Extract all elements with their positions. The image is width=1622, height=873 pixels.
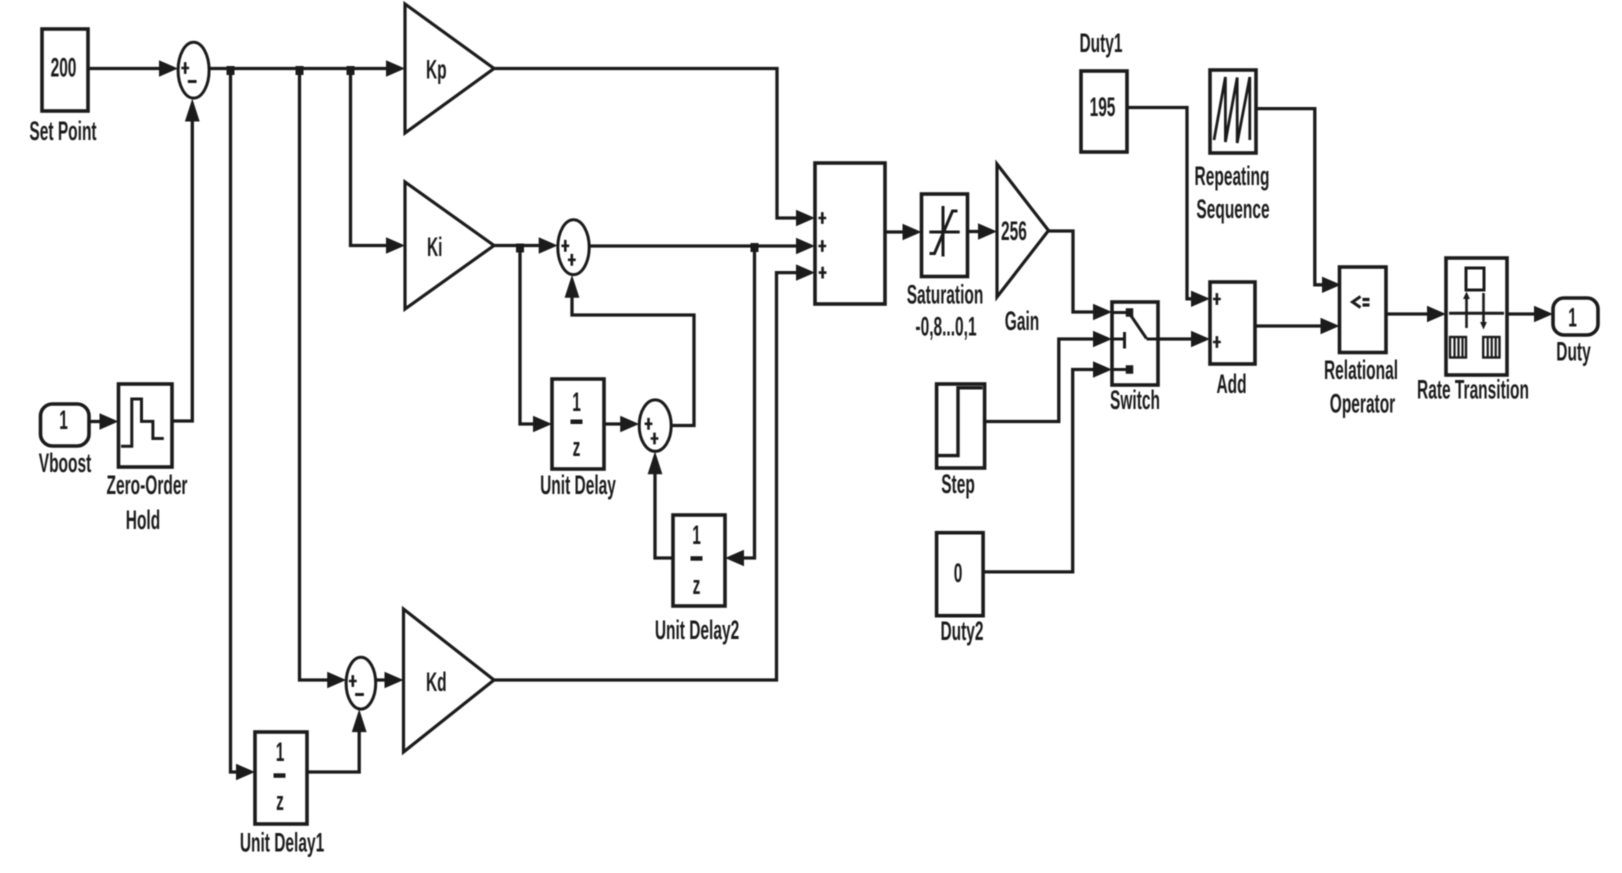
svg-text:1: 1 xyxy=(572,386,581,417)
svg-text:Duty1: Duty1 xyxy=(1079,27,1122,58)
wire Duty2 up to Switch input 3 xyxy=(983,361,1112,572)
svg-text:Ki: Ki xyxy=(427,231,443,262)
gain block Kd xyxy=(404,609,495,752)
Repeating Sequence block (sawtooth) xyxy=(1195,70,1270,224)
wire S2-line branch down to Unit Delay2 right input xyxy=(725,246,755,566)
wire Kd to big Sum third input xyxy=(494,264,815,680)
Zero-Order Hold block xyxy=(107,384,188,535)
svg-text:Unit Delay2: Unit Delay2 xyxy=(655,614,739,645)
Add block (+/+) xyxy=(1210,282,1255,399)
svg-text:Kp: Kp xyxy=(426,54,447,85)
wire error branch to Ki xyxy=(351,69,406,254)
wire Switch to Add second input xyxy=(1158,331,1210,347)
gain block Kp xyxy=(405,4,494,133)
Unit Delay1 block (1/z) xyxy=(240,732,324,858)
wire Add to Relational Operator input 2 xyxy=(1255,318,1340,334)
gain block Ki xyxy=(405,182,494,309)
wire S2 to big Sum middle input xyxy=(589,238,815,254)
svg-text:256: 256 xyxy=(1001,215,1027,246)
wire Gain 256 down to Switch input 1 xyxy=(1049,231,1113,320)
sum junction S1 (+/-) after Set Point xyxy=(178,42,209,98)
svg-text:1: 1 xyxy=(276,736,285,767)
wire Step up to Switch input 2 xyxy=(985,331,1112,422)
svg-text:-0,8...0,1: -0,8...0,1 xyxy=(915,311,976,342)
svg-text:Hold: Hold xyxy=(126,504,160,535)
svg-text:z: z xyxy=(693,569,701,600)
Switch block xyxy=(1110,302,1160,415)
svg-text:195: 195 xyxy=(1090,91,1116,122)
svg-text:Rate Transition: Rate Transition xyxy=(1417,374,1529,405)
svg-text:Relational: Relational xyxy=(1324,354,1398,385)
wire Ki to S2 xyxy=(494,237,558,253)
wire Zero-Order Hold up to S1 minus input xyxy=(172,99,200,422)
wire Unit Delay to S3 xyxy=(604,416,639,432)
svg-text:z: z xyxy=(573,431,581,462)
inport Vboost (1) xyxy=(39,404,92,478)
constant block Duty1 (value 195) xyxy=(1079,27,1127,152)
Step source block xyxy=(937,384,985,499)
svg-text:1: 1 xyxy=(692,519,701,550)
svg-text:Vboost: Vboost xyxy=(39,447,92,478)
sum junction S4 (+/-) before Kd xyxy=(346,657,376,709)
outport Duty (1) xyxy=(1553,298,1598,367)
constant block Set Point (value 200) xyxy=(29,29,97,146)
svg-text:Duty2: Duty2 xyxy=(940,615,983,646)
wire Rate Transition to Duty outport xyxy=(1507,306,1553,322)
wire S3 feedback up to S2 plus input xyxy=(565,275,694,426)
sum junction S3 (+/+) xyxy=(639,400,671,451)
Unit Delay2 block (1/z, mirrored) xyxy=(655,515,739,645)
wire error branch to Unit Delay1 xyxy=(231,69,256,781)
Rate Transition block xyxy=(1417,258,1529,405)
wire Repeating Sequence down to Relational Operator input 1 xyxy=(1256,109,1341,293)
svg-text:Gain: Gain xyxy=(1005,305,1039,336)
wire Unit Delay1 up to S4 minus input xyxy=(307,709,367,772)
svg-text:Operator: Operator xyxy=(1330,388,1396,419)
wire Vboost to Zero-Order Hold xyxy=(89,413,119,429)
wire Set Point to S1 xyxy=(88,60,178,76)
wire Ki branch down to Unit Delay xyxy=(520,246,552,433)
svg-text:1: 1 xyxy=(59,404,68,435)
Relational Operator block (<=) xyxy=(1324,267,1398,419)
svg-text:Saturation: Saturation xyxy=(907,279,984,310)
svg-text:Zero-Order: Zero-Order xyxy=(107,469,188,500)
wire error branch to S4 xyxy=(300,69,347,689)
wire Kp to big Sum first input xyxy=(494,69,815,227)
svg-text:Step: Step xyxy=(941,468,975,499)
wire Duty1 down to Add first input xyxy=(1127,108,1210,308)
svg-text:Switch: Switch xyxy=(1110,384,1160,415)
svg-text:z: z xyxy=(276,785,284,816)
big Sum block (3 plus inputs) xyxy=(815,163,885,304)
Unit Delay block (1/z) xyxy=(540,379,616,500)
svg-text:Add: Add xyxy=(1216,368,1246,399)
svg-text:Kd: Kd xyxy=(426,666,447,697)
svg-text:0: 0 xyxy=(954,557,963,588)
svg-text:Unit Delay1: Unit Delay1 xyxy=(240,827,324,858)
svg-text:Set Point: Set Point xyxy=(29,115,97,146)
constant block Duty2 (value 0) xyxy=(937,533,984,646)
wire big Sum to Saturation xyxy=(885,224,922,240)
svg-text:200: 200 xyxy=(51,52,77,83)
svg-text:1: 1 xyxy=(1568,302,1577,333)
wire Unit Delay2 left output up to S3 plus input xyxy=(648,451,673,558)
wire S1 to Kp (error signal) xyxy=(209,60,405,76)
wire S4 to Kd xyxy=(376,672,404,688)
gain block 256 xyxy=(997,164,1049,336)
svg-text:Duty: Duty xyxy=(1556,336,1591,367)
Saturation block (-0,8...0,1) xyxy=(907,194,984,342)
svg-text:Repeating: Repeating xyxy=(1195,160,1270,191)
wire Saturation to Gain 256 xyxy=(968,223,998,239)
svg-text:Unit Delay: Unit Delay xyxy=(540,469,616,500)
sum junction S2 (+/+) integrator xyxy=(558,220,589,275)
svg-text:Sequence: Sequence xyxy=(1196,193,1269,224)
wire Relational Operator to Rate Transition xyxy=(1386,306,1446,322)
